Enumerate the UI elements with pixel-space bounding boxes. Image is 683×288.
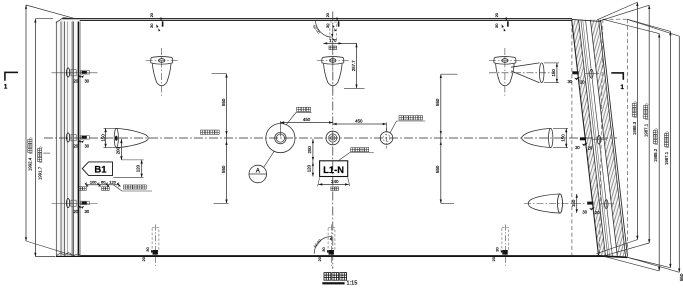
dimension 120 (L1-N box height) — [307, 161, 314, 177]
dimension 1987.1 (outer face) right outer — [627, 19, 671, 267]
dimension 450 (left: big hole to centerline) — [280, 117, 332, 137]
dimension 257.7 (lug position) — [344, 43, 365, 88]
lifting lug (top middle, front view) — [317, 48, 349, 96]
svg-text:20: 20 — [325, 12, 330, 17]
lug side view (mid left, pointing right) — [114, 128, 148, 147]
bottom stud detail with 60deg arc (x=331.5) — [312, 225, 335, 267]
top edge (double line) of panel — [63, 18, 573, 20]
svg-text:120: 120 — [109, 179, 116, 184]
dimension 170 (top stud spacing) — [323, 38, 357, 50]
svg-text:20: 20 — [141, 256, 146, 261]
dimension 1988.2 (inner face) right outer — [603, 19, 661, 271]
svg-text:550: 550 — [221, 165, 226, 173]
dimension 150 (bottom right lug) — [571, 194, 578, 213]
svg-text:30: 30 — [321, 247, 326, 252]
svg-text:20: 20 — [317, 256, 322, 261]
title 立面图 1:15 — [322, 273, 357, 287]
svg-text:20: 20 — [595, 210, 600, 215]
svg-text:1991.7: 1991.7 — [37, 166, 42, 180]
svg-text:1:15: 1:15 — [347, 280, 358, 286]
left formwork edge band (stacked plates) — [56, 18, 80, 256]
svg-text:200: 200 — [307, 146, 312, 154]
lifting lug side view cone (top right) — [489, 63, 552, 83]
svg-text:30: 30 — [84, 78, 89, 83]
svg-text:550: 550 — [435, 165, 440, 173]
svg-text:20: 20 — [580, 80, 585, 85]
svg-text:1988.3: 1988.3 — [632, 121, 637, 135]
lifting lug (top right, front view) — [489, 48, 521, 96]
svg-text:20: 20 — [491, 256, 496, 261]
svg-text:550: 550 — [679, 273, 683, 281]
svg-text:30: 30 — [84, 209, 89, 214]
svg-text:450: 450 — [303, 117, 311, 122]
bottom stud detail (x=505) — [491, 225, 509, 267]
dimension 1991.7 (outer face) left — [34, 19, 55, 257]
weld stud detail right band (top) — [567, 69, 599, 84]
svg-text:20: 20 — [73, 78, 78, 83]
part label B1 (pennant) — [82, 162, 112, 176]
svg-text:550: 550 — [221, 98, 226, 106]
svg-text:20: 20 — [73, 143, 78, 148]
label threaded plug pipe (leader) — [286, 107, 312, 125]
dashed reference line left of right band — [571, 22, 573, 256]
svg-text:120: 120 — [136, 164, 141, 172]
label formwork piece mark (leader) — [338, 148, 374, 161]
lug side view (bottom right, pointing left) — [524, 194, 585, 213]
dimension 200 (left, centerline to B1) — [116, 139, 123, 160]
svg-text:L1-N: L1-N — [323, 164, 344, 175]
weld stud detail right band (bottom) — [582, 200, 614, 215]
dashed top segment of unfolded edge — [603, 18, 627, 20]
svg-text:1988.2: 1988.2 — [653, 148, 658, 162]
small hole on centerline (x=332.8) — [326, 131, 340, 145]
assembly locating hole (dashed circle) — [380, 128, 393, 149]
dimension 1987.1 (outer face) right — [599, 5, 651, 255]
threaded plug hole (big circle) — [266, 124, 295, 153]
svg-text:1: 1 — [4, 84, 8, 91]
label assembly locating hole (leader) — [390, 116, 425, 133]
detail mark A circle — [249, 151, 274, 183]
svg-text:120: 120 — [307, 164, 312, 172]
dimension column 550/550 (right, x=440.8) — [435, 74, 458, 203]
dimension 550 far right — [627, 19, 683, 281]
svg-text:20: 20 — [494, 12, 499, 17]
label middle scribe line — [200, 130, 219, 134]
svg-text:30: 30 — [145, 247, 150, 252]
part label L1-N (box) — [320, 161, 348, 177]
svg-text:20: 20 — [149, 12, 154, 17]
svg-text:150: 150 — [561, 134, 566, 142]
svg-text:1987.1: 1987.1 — [664, 151, 669, 165]
section mark 1 (left) — [4, 72, 18, 91]
svg-text:240: 240 — [331, 179, 339, 184]
dimension 1992.4 (inner face) left — [25, 5, 74, 256]
svg-text:30: 30 — [149, 23, 154, 28]
right formwork edge band (slanted, hatched) — [572, 19, 628, 257]
svg-text:B1: B1 — [94, 165, 107, 176]
svg-text:200: 200 — [116, 146, 121, 154]
section mark 1 (right) — [611, 72, 624, 91]
dimensions 100/60/120 below B1 — [79, 179, 121, 190]
top stud mark with 60deg arc (x=332.8) — [312, 12, 340, 39]
svg-text:1987.1: 1987.1 — [643, 123, 648, 137]
dimension 450 (right: centerline to locating hole) — [333, 119, 387, 132]
horizontal centerline (middle scribe line) — [44, 137, 617, 139]
bottom edge (thick line) of panel — [56, 255, 605, 257]
vertical centerline x=332.8 — [332, 12, 334, 269]
lug side view (mid right, pointing left) — [522, 128, 553, 147]
tick near left dimension labels — [43, 152, 50, 154]
svg-text:150: 150 — [571, 199, 576, 207]
svg-text:30: 30 — [325, 23, 330, 28]
svg-text:1992.4: 1992.4 — [28, 157, 33, 171]
top stud mark (x=500) — [494, 12, 509, 31]
svg-text:450: 450 — [355, 119, 363, 124]
top stud mark (x=155) — [149, 12, 164, 31]
dashed reference line right of right band — [626, 19, 628, 257]
dimension 1988.3 (inner face) right — [597, 2, 639, 254]
weld stud detail left band (top) — [52, 68, 98, 84]
dimension 240 below L1-N — [318, 178, 350, 191]
svg-text:150: 150 — [551, 69, 556, 77]
dimension 120 (left, B1 box height) — [114, 160, 144, 178]
dimension 200 (centerline to L1-N) — [307, 139, 314, 161]
svg-text:20: 20 — [73, 209, 78, 214]
dimension 150 (mid right lug) — [553, 128, 568, 147]
svg-text:30: 30 — [575, 145, 580, 150]
svg-text:170: 170 — [329, 38, 337, 43]
svg-text:20: 20 — [588, 146, 593, 151]
weld stud detail left band (middle) — [67, 133, 90, 149]
svg-text:150: 150 — [100, 134, 105, 142]
weld stud detail right band (middle) — [575, 135, 607, 150]
svg-text:30: 30 — [582, 210, 587, 215]
svg-text:30: 30 — [495, 247, 500, 252]
bottom stud detail (x=155) — [141, 225, 159, 267]
svg-text:1: 1 — [620, 84, 624, 91]
svg-text:60: 60 — [101, 179, 106, 184]
svg-text:100: 100 — [90, 179, 97, 184]
dimension column 550/550 (left, x=226.5) — [212, 74, 229, 204]
svg-text:550: 550 — [435, 98, 440, 106]
label butt-joint face mark (leader) — [114, 185, 153, 191]
svg-text:30: 30 — [494, 23, 499, 28]
dimension 150 (mid left lug) — [100, 128, 116, 147]
dimension 150 (top right cone) — [544, 63, 559, 83]
weld stud detail left band (bottom) — [52, 199, 98, 215]
svg-text:30: 30 — [567, 79, 572, 84]
svg-text:257.7: 257.7 — [351, 60, 356, 71]
dashed slant line of unfolded edge — [600, 19, 603, 256]
lifting lug (top left, front view) — [146, 48, 178, 96]
svg-text:30: 30 — [84, 143, 89, 148]
